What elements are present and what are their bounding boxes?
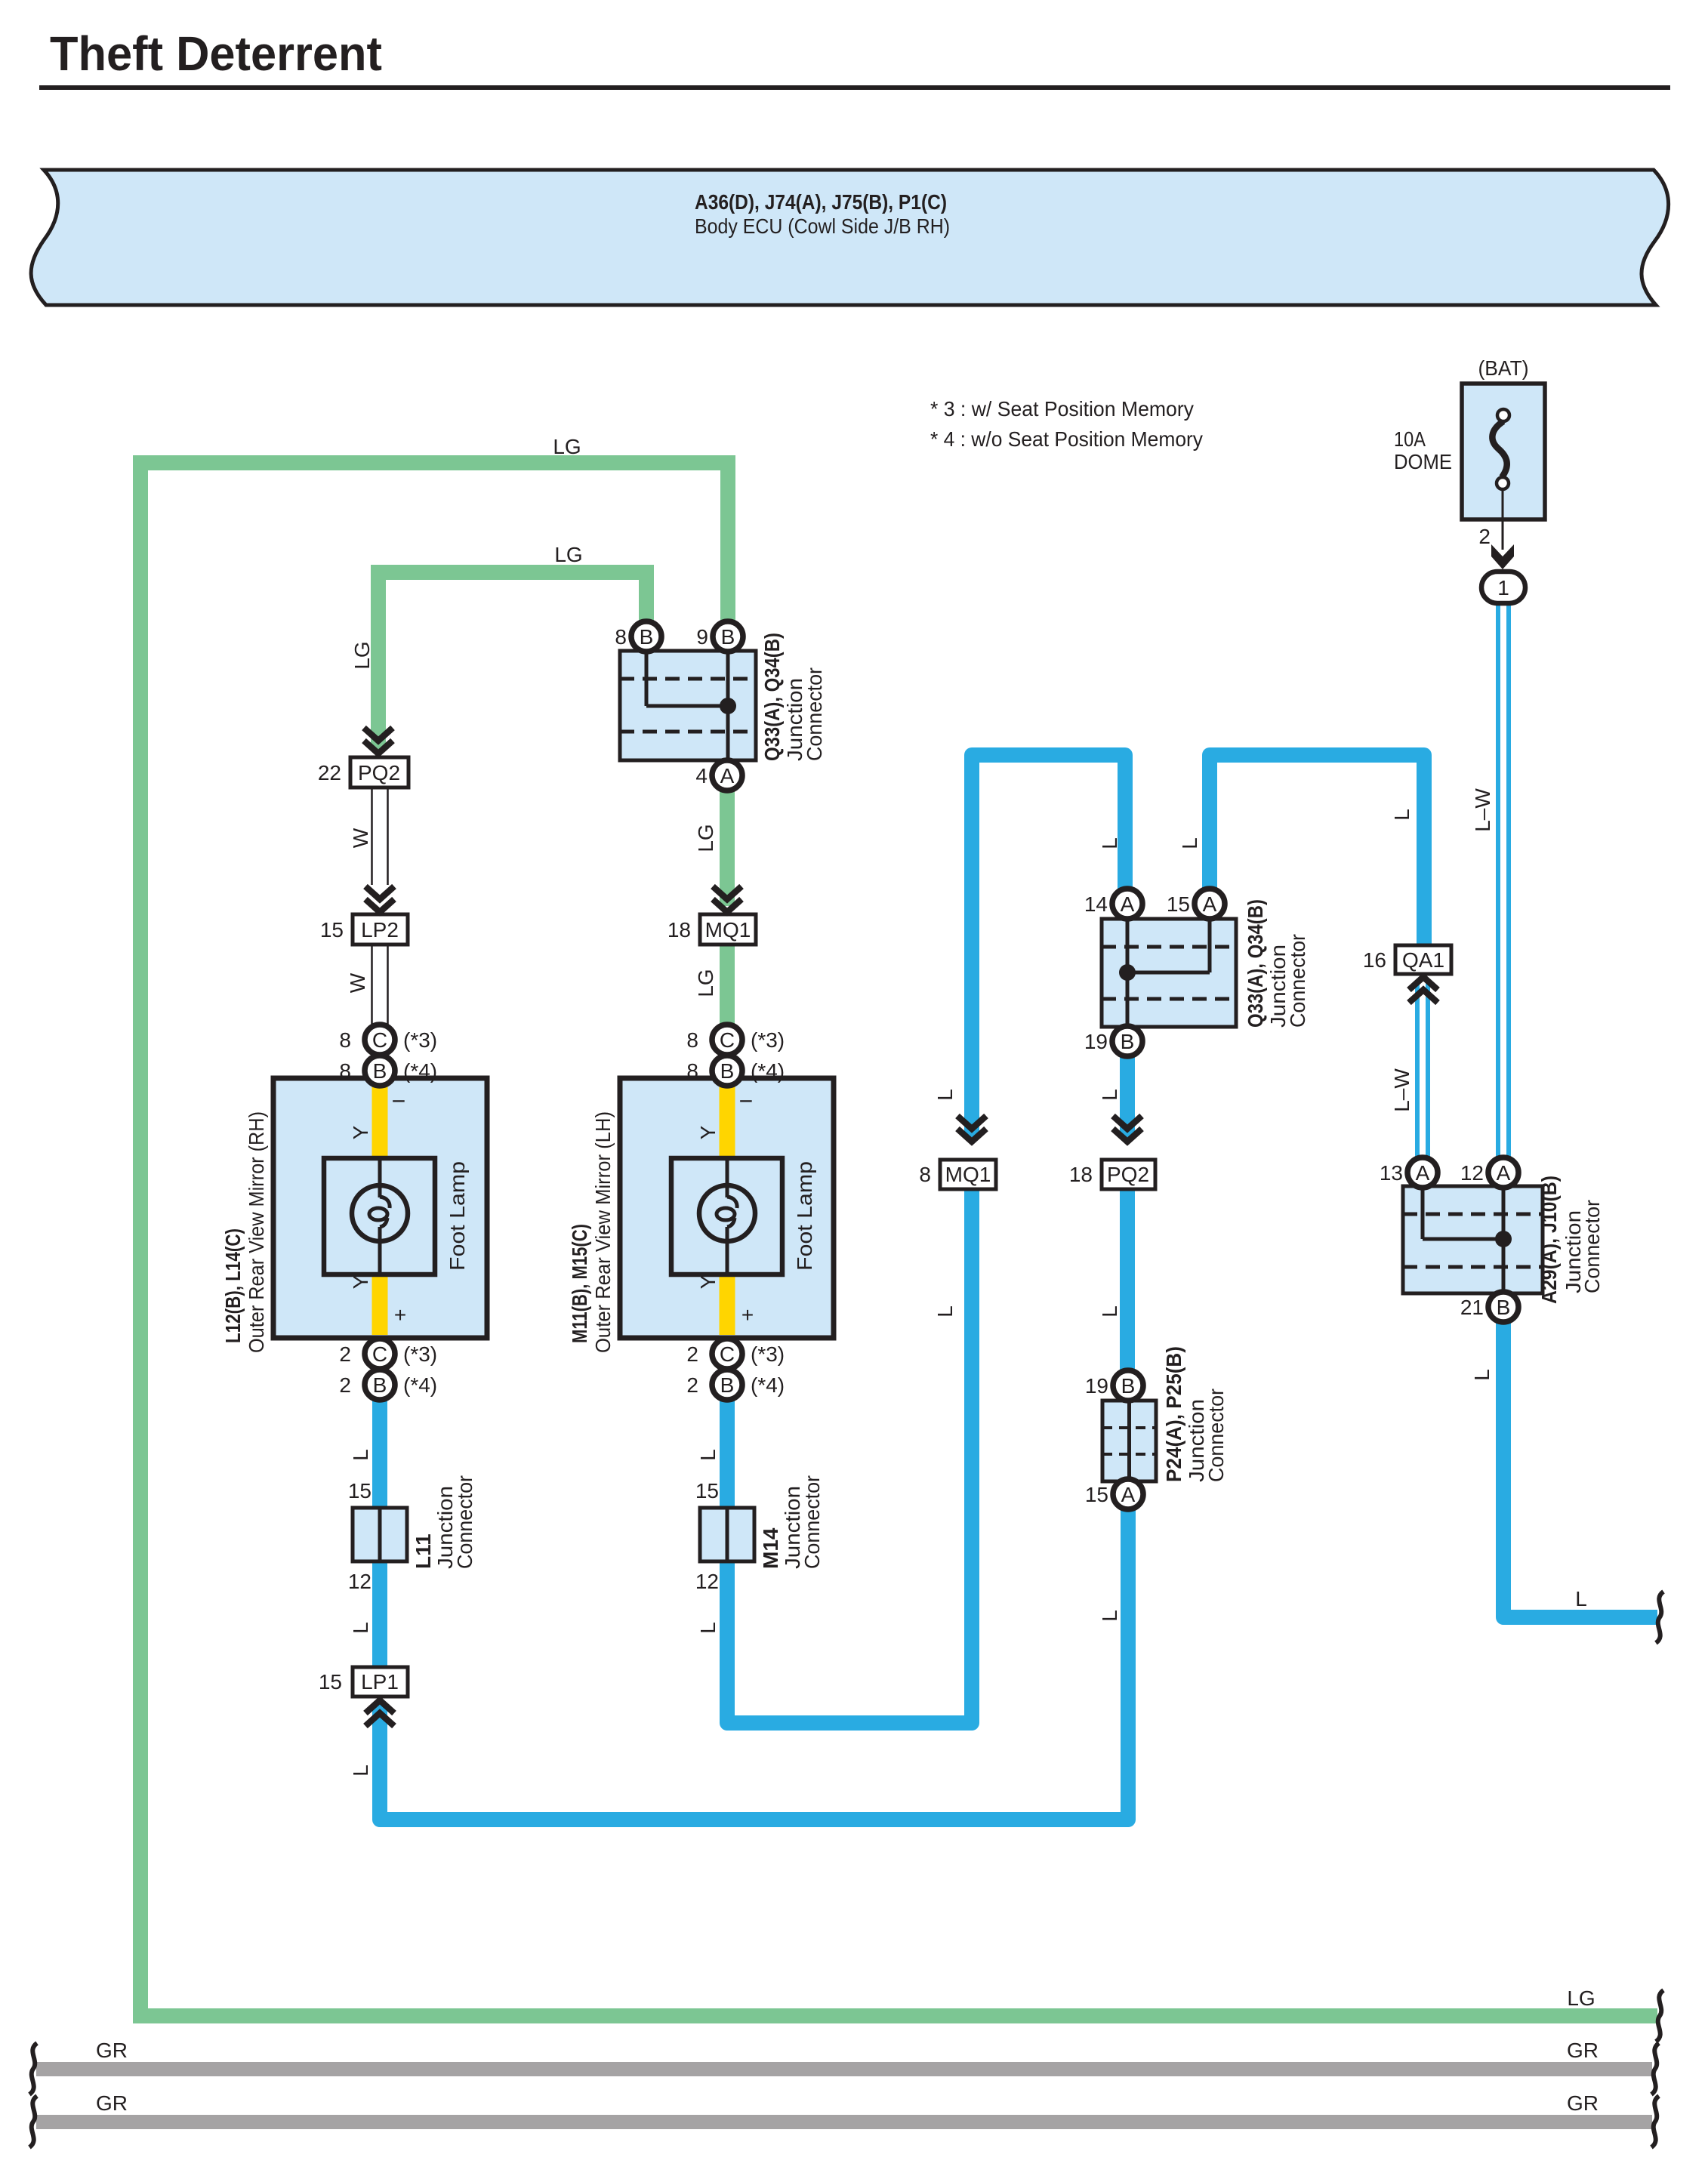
pin 2 B (*4) mirror LH	[686, 1370, 785, 1400]
svg-text:1: 1	[1497, 576, 1509, 599]
pin 21 B of A29	[1460, 1292, 1518, 1322]
connector LP1 15	[319, 1667, 408, 1697]
svg-text:L: L	[696, 1449, 720, 1461]
shield bar GR 2	[36, 2115, 1652, 2129]
svg-text:2: 2	[686, 1342, 698, 1366]
label Junction Connector P24	[1185, 1388, 1228, 1482]
arrow chevron into PQ2 22	[364, 728, 393, 754]
connector MQ1 18	[667, 914, 756, 945]
svg-text:GR: GR	[1567, 2091, 1599, 2115]
svg-text:22: 22	[318, 761, 341, 784]
svg-text:A: A	[1416, 1161, 1430, 1185]
svg-text:B: B	[373, 1059, 387, 1083]
wire L-W QA1 to pin 13A	[1417, 982, 1428, 1157]
svg-text:L: L	[1178, 837, 1201, 849]
fuse 10A DOME	[1462, 384, 1545, 550]
svg-text:LG: LG	[350, 641, 374, 669]
svg-text:Y: Y	[349, 1125, 372, 1139]
junction connector P24(A),P25(B)	[1102, 1401, 1156, 1481]
svg-text:+: +	[394, 1303, 406, 1327]
node 1 oval	[1481, 572, 1525, 603]
wire L LP1 loop to P24 pin A	[380, 1509, 1128, 1820]
svg-text:L: L	[1098, 1305, 1121, 1318]
svg-text:Theft Deterrent: Theft Deterrent	[50, 26, 382, 81]
svg-text:18: 18	[667, 918, 691, 942]
svg-text:12: 12	[348, 1570, 372, 1593]
svg-text:GR: GR	[96, 2039, 128, 2062]
svg-text:L–W: L–W	[1471, 788, 1494, 832]
svg-text:2: 2	[339, 1373, 351, 1397]
svg-text:LG: LG	[1567, 1986, 1595, 2010]
arrow chevron into MQ1 8	[957, 1116, 986, 1142]
svg-text:−: −	[739, 1087, 754, 1114]
svg-text:2: 2	[339, 1342, 351, 1366]
svg-text:A: A	[1121, 1483, 1136, 1506]
break squiggle bar1 left	[29, 2043, 37, 2094]
pin 4 A of Q33 top	[695, 760, 742, 791]
banner Body ECU ribbon	[31, 170, 1669, 305]
break squiggle bar2 left	[29, 2096, 37, 2147]
svg-text:8: 8	[339, 1028, 351, 1052]
wire W LP2 to pin C	[372, 945, 388, 1025]
connector MQ1 8	[919, 1160, 996, 1189]
svg-text:MQ1: MQ1	[705, 918, 751, 942]
junction connector A29(A),J10(B)	[1403, 1186, 1543, 1293]
svg-text:+: +	[741, 1303, 754, 1327]
svg-text:(*4): (*4)	[403, 1373, 437, 1397]
svg-text:LP1: LP1	[361, 1670, 399, 1694]
pin 13 A of A29	[1380, 1157, 1438, 1188]
wire L PQ2(18) to P24 pin 19B	[1120, 1189, 1135, 1370]
label Junction Connector M14	[781, 1475, 824, 1569]
svg-text:L: L	[1470, 1369, 1494, 1381]
svg-text:A: A	[1497, 1161, 1511, 1185]
svg-text:LG: LG	[554, 543, 582, 566]
junction connector L11	[353, 1508, 407, 1561]
connector LP2 15	[320, 914, 408, 945]
wire L Q33 pin 19B to PQ2(18)	[1120, 1056, 1135, 1137]
svg-text:15: 15	[320, 918, 344, 942]
wire L-W fuse to pin 12A	[1498, 603, 1509, 1157]
svg-text:15: 15	[1085, 1483, 1108, 1506]
svg-text:8: 8	[686, 1059, 698, 1083]
arrow chevron up into QA1	[1409, 977, 1438, 1003]
svg-text:L–W: L–W	[1390, 1068, 1414, 1112]
svg-text:B: B	[721, 625, 735, 649]
svg-text:C: C	[720, 1342, 735, 1366]
pin 8 B (*4) mirror LH	[686, 1056, 785, 1086]
junction connector Q33(A),Q34(B) top	[620, 651, 756, 760]
svg-text:* 3 : w/ Seat Position Memory: * 3 : w/ Seat Position Memory	[930, 397, 1194, 421]
pin 8 B of Q33 top	[615, 621, 661, 652]
svg-text:12: 12	[1460, 1161, 1484, 1185]
pin 9 B of Q33 top	[696, 621, 743, 652]
wire L pin 15A loop to QA1	[1210, 755, 1424, 945]
svg-text:L: L	[349, 1764, 372, 1777]
svg-text:12: 12	[695, 1570, 719, 1593]
svg-text:16: 16	[1363, 948, 1386, 972]
svg-text:8: 8	[686, 1028, 698, 1052]
svg-text:14: 14	[1084, 892, 1108, 916]
shield bar GR 1	[36, 2062, 1652, 2076]
svg-text:L: L	[349, 1622, 372, 1634]
wire L M14 loop to MQ1(8)	[727, 1189, 972, 1723]
svg-text:15: 15	[695, 1479, 719, 1502]
pin 12 A of A29	[1460, 1157, 1518, 1188]
svg-text:LG: LG	[553, 435, 581, 458]
svg-text:L11: L11	[412, 1533, 435, 1569]
svg-text:B: B	[1121, 1030, 1135, 1053]
wire LG branch to PQ2	[378, 572, 646, 749]
svg-text:A: A	[1121, 892, 1135, 916]
svg-text:2: 2	[1478, 525, 1491, 548]
svg-text:(*3): (*3)	[403, 1342, 437, 1366]
svg-text:15: 15	[319, 1670, 342, 1694]
svg-text:Connector: Connector	[1286, 934, 1309, 1028]
svg-text:L: L	[349, 1449, 372, 1461]
arrow chevron into LP2	[365, 886, 394, 912]
svg-text:8: 8	[339, 1059, 351, 1083]
svg-text:B: B	[1121, 1374, 1136, 1398]
svg-text:(*3): (*3)	[751, 1342, 785, 1366]
svg-text:B: B	[1497, 1296, 1511, 1319]
svg-text:Connector: Connector	[803, 667, 826, 761]
svg-text:Connector: Connector	[1580, 1200, 1604, 1293]
svg-text:9: 9	[696, 625, 708, 649]
label 10A DOME	[1394, 427, 1452, 473]
svg-text:* 4 : w/o Seat Position Memory: * 4 : w/o Seat Position Memory	[930, 427, 1203, 451]
wire L mirror RH to L11	[372, 1400, 387, 1508]
pin 15 A of P24	[1085, 1479, 1143, 1509]
wire L mirror LH to M14	[720, 1400, 735, 1508]
junction connector Q33(A),Q34(B) right	[1102, 919, 1236, 1027]
wire W PQ2 to LP2	[372, 787, 388, 885]
svg-text:C: C	[372, 1342, 387, 1366]
svg-text:B: B	[720, 1059, 735, 1083]
svg-text:GR: GR	[96, 2091, 128, 2115]
svg-text:M11(B), M15(C): M11(B), M15(C)	[568, 1224, 591, 1343]
wire LG A4 to MQ1(18)	[720, 791, 735, 906]
pin 19 B of P24	[1085, 1370, 1143, 1401]
svg-text:(*4): (*4)	[403, 1059, 437, 1083]
svg-text:L: L	[933, 1305, 957, 1318]
svg-text:18: 18	[1069, 1163, 1093, 1186]
arrow chevron into PQ2 18	[1113, 1116, 1142, 1142]
svg-text:Foot Lamp: Foot Lamp	[793, 1161, 816, 1271]
svg-text:Connector: Connector	[1204, 1388, 1228, 1482]
svg-text:W: W	[346, 972, 369, 993]
label Junction Connector top	[783, 667, 826, 761]
pin 15 A of Q33 right	[1167, 889, 1225, 919]
title underline	[39, 85, 1670, 90]
break squiggle bar1 right	[1651, 2043, 1659, 2094]
svg-text:M14: M14	[759, 1527, 782, 1569]
svg-text:LG: LG	[694, 824, 717, 852]
svg-text:Outer Rear View Mirror (RH): Outer Rear View Mirror (RH)	[245, 1111, 268, 1353]
svg-text:19: 19	[1085, 1374, 1108, 1398]
svg-text:(*3): (*3)	[403, 1028, 437, 1052]
wire LG MQ1(18) to pin C	[720, 945, 735, 1025]
pin 8 C (*3) mirror RH	[339, 1025, 437, 1055]
arrow chevron into MQ1 18	[713, 886, 741, 912]
svg-text:A29(A), J10(B): A29(A), J10(B)	[1537, 1176, 1561, 1304]
svg-text:L: L	[1575, 1587, 1587, 1610]
break squiggle LG bottom	[1656, 1990, 1663, 2042]
connector PQ2 18	[1069, 1160, 1155, 1189]
svg-text:L: L	[1098, 1089, 1121, 1101]
svg-text:19: 19	[1084, 1030, 1108, 1053]
svg-text:Connector: Connector	[453, 1475, 476, 1569]
svg-text:LG: LG	[694, 969, 717, 997]
lamp bulb L12	[352, 1185, 408, 1241]
svg-text:A: A	[720, 764, 735, 787]
svg-text:Q33(A), Q34(B): Q33(A), Q34(B)	[760, 633, 784, 761]
component mirror M11(B),M15(C) Outer Rear View Mirror LH	[620, 1078, 834, 1338]
svg-text:LP2: LP2	[361, 918, 399, 942]
arrow solid into node 1	[1491, 544, 1514, 569]
svg-text:Q33(A), Q34(B): Q33(A), Q34(B)	[1244, 899, 1267, 1028]
pin 8 B (*4) mirror RH	[339, 1056, 437, 1086]
svg-text:L: L	[933, 1089, 957, 1101]
pin 2 C (*3) mirror LH	[686, 1339, 785, 1369]
svg-text:B: B	[640, 625, 654, 649]
connector QA1 16	[1363, 945, 1451, 974]
break squiggle L bottom right	[1656, 1592, 1663, 1643]
svg-text:PQ2: PQ2	[358, 761, 400, 784]
svg-text:13: 13	[1380, 1161, 1403, 1185]
svg-text:8: 8	[919, 1163, 931, 1186]
svg-text:P24(A), P25(B): P24(A), P25(B)	[1162, 1346, 1185, 1482]
svg-text:Y: Y	[349, 1274, 372, 1289]
component mirror L12(B),L14(C) Outer Rear View Mirror RH	[273, 1078, 487, 1338]
svg-text:L: L	[1098, 837, 1121, 849]
lamp bulb M11	[699, 1185, 755, 1241]
pin 19 B of Q33 right	[1084, 1026, 1142, 1056]
wire LG main loop	[140, 463, 1657, 2016]
svg-text:(*3): (*3)	[751, 1028, 785, 1052]
label Junction Connector right	[1266, 934, 1309, 1028]
svg-text:Y: Y	[696, 1125, 720, 1139]
svg-text:QA1: QA1	[1402, 948, 1444, 972]
svg-text:Connector: Connector	[800, 1475, 824, 1569]
svg-text:Foot Lamp: Foot Lamp	[445, 1161, 469, 1271]
svg-text:B: B	[720, 1373, 735, 1397]
svg-text:MQ1: MQ1	[945, 1163, 991, 1186]
svg-text:L: L	[696, 1622, 720, 1634]
svg-text:L: L	[1390, 809, 1414, 821]
svg-text:Outer Rear View Mirror (LH): Outer Rear View Mirror (LH)	[591, 1111, 615, 1353]
svg-text:Y: Y	[696, 1274, 720, 1289]
svg-text:A36(D), J74(A), J75(B), P1(C): A36(D), J74(A), J75(B), P1(C)	[695, 190, 947, 214]
svg-text:(*4): (*4)	[751, 1059, 785, 1083]
svg-text:(BAT): (BAT)	[1478, 356, 1529, 380]
pin 8 C (*3) mirror LH	[686, 1025, 785, 1055]
svg-text:21: 21	[1460, 1296, 1484, 1319]
pin 2 C (*3) mirror RH	[339, 1339, 437, 1369]
label Junction Connector L11	[433, 1475, 476, 1569]
svg-text:Body ECU (Cowl Side J/B RH): Body ECU (Cowl Side J/B RH)	[695, 214, 950, 238]
svg-text:DOME: DOME	[1394, 450, 1452, 473]
svg-text:(*4): (*4)	[751, 1373, 785, 1397]
svg-text:15: 15	[1167, 892, 1190, 916]
arrow chevron up into LP1	[365, 1700, 394, 1726]
svg-text:A: A	[1203, 892, 1217, 916]
connector PQ2 22	[318, 757, 409, 787]
break squiggle bar2 right	[1651, 2096, 1659, 2147]
svg-text:B: B	[373, 1373, 387, 1397]
svg-text:W: W	[349, 828, 372, 848]
svg-text:L: L	[1098, 1610, 1121, 1622]
svg-text:10A: 10A	[1394, 427, 1426, 451]
svg-text:GR: GR	[1567, 2039, 1599, 2062]
label Junction Connector A29	[1562, 1200, 1604, 1293]
pin 2 B (*4) mirror RH	[339, 1370, 437, 1400]
pin 14 A of Q33 right	[1084, 889, 1142, 919]
svg-text:2: 2	[686, 1373, 698, 1397]
svg-text:15: 15	[348, 1479, 372, 1502]
svg-text:C: C	[720, 1028, 735, 1052]
svg-text:−: −	[392, 1087, 406, 1114]
wire L MQ1(8) up loop to pin 14A	[972, 755, 1125, 1137]
wire L A29 pin 21B to break	[1503, 1322, 1657, 1617]
svg-text:L12(B), L14(C): L12(B), L14(C)	[221, 1228, 245, 1343]
wire L L11 to LP1	[372, 1561, 387, 1667]
svg-text:8: 8	[615, 625, 627, 649]
junction connector M14	[700, 1508, 754, 1561]
svg-text:4: 4	[695, 764, 708, 787]
svg-text:C: C	[372, 1028, 387, 1052]
svg-text:PQ2: PQ2	[1107, 1163, 1149, 1186]
